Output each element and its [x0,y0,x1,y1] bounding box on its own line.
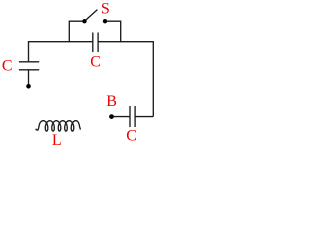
wire: terminal B to right capacitor [112,116,130,118]
svg-text:C: C [2,57,13,74]
switch S left contact dot [82,19,86,23]
terminal dot below left capacitor [26,84,31,89]
wire: top rail right segment [98,41,153,43]
wire: left capacitor to terminal dot [28,70,30,84]
wire: top rail left segment with corner down to left capacitor [29,42,94,62]
terminal dot B [109,114,114,119]
capacitor C (middle, on top rail) left plate [92,33,94,53]
wire: bottom right horizontal to capacitor right plate [135,116,153,118]
svg-text:S: S [101,1,110,18]
capacitor C (right) left plate [129,106,131,127]
svg-text:B: B [106,93,117,110]
capacitor C (middle) right plate [97,33,99,53]
svg-text:C: C [90,53,101,70]
capacitor C (right) right plate [134,106,136,127]
switch S right contact dot [103,19,107,23]
wire: right vertical drop [152,41,154,117]
wire: switch branch right stub [105,21,121,42]
capacitor C (left) bottom plate [19,69,39,71]
svg-text:C: C [126,127,137,144]
svg-text:L: L [52,132,62,149]
inductor L coil [36,121,81,131]
switch S lever [85,10,98,22]
capacitor C (left) top plate [19,61,39,63]
wire: switch branch left stub [69,21,84,42]
